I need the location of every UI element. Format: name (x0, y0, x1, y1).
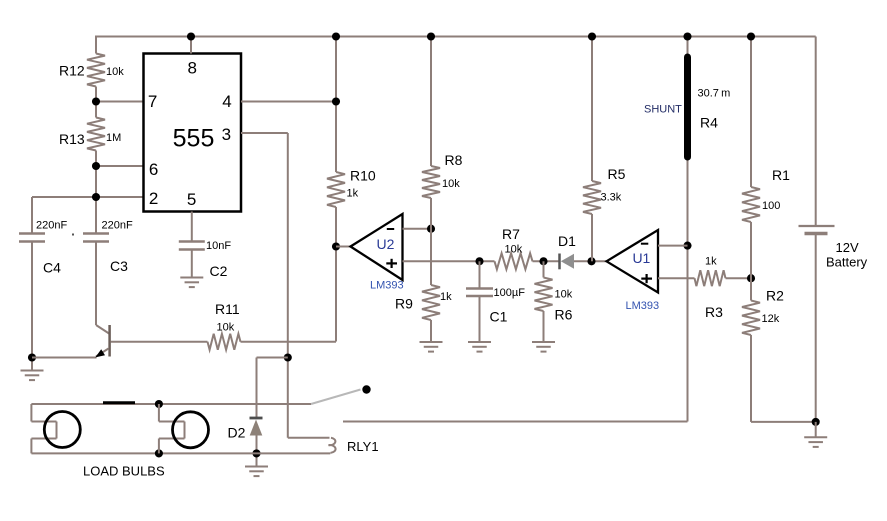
svg-text:C2: C2 (210, 263, 228, 279)
svg-text:C1: C1 (490, 309, 508, 325)
svg-text:5: 5 (187, 190, 196, 209)
svg-text:100: 100 (762, 200, 780, 212)
svg-text:R8: R8 (445, 152, 463, 168)
svg-text:4: 4 (222, 92, 231, 111)
svg-text:D2: D2 (228, 425, 246, 441)
svg-text:10nF: 10nF (206, 240, 231, 252)
svg-text:555: 555 (173, 125, 215, 153)
svg-text:U1: U1 (632, 250, 650, 266)
svg-text:R13: R13 (59, 131, 85, 147)
svg-text:220nF: 220nF (102, 220, 133, 232)
svg-text:8: 8 (187, 59, 196, 78)
svg-text:R10: R10 (350, 168, 376, 184)
svg-text:R6: R6 (555, 307, 573, 323)
svg-text:Battery: Battery (826, 255, 868, 270)
svg-text:R11: R11 (215, 301, 240, 317)
svg-text:10k: 10k (442, 178, 460, 190)
svg-text:LM393: LM393 (370, 280, 404, 292)
svg-text:R9: R9 (395, 296, 413, 312)
svg-text:6: 6 (149, 160, 158, 179)
svg-text:R12: R12 (59, 63, 85, 79)
svg-text:10k: 10k (217, 322, 235, 334)
svg-text:12k: 12k (762, 313, 780, 325)
svg-text:1k: 1k (705, 256, 717, 268)
svg-text:D1: D1 (558, 233, 576, 249)
svg-text:R4: R4 (700, 115, 718, 131)
svg-text:220nF: 220nF (36, 220, 67, 232)
svg-text:R1: R1 (772, 167, 790, 183)
svg-text:3: 3 (222, 125, 231, 144)
svg-text:12V: 12V (836, 240, 859, 255)
svg-text:C4: C4 (43, 260, 61, 276)
svg-text:R3: R3 (705, 304, 723, 320)
svg-text:1M: 1M (106, 132, 121, 144)
svg-text:7: 7 (148, 92, 157, 111)
svg-text:2: 2 (149, 189, 158, 208)
svg-text:3.3k: 3.3k (601, 192, 622, 204)
svg-text:C3: C3 (110, 258, 128, 274)
svg-text:U2: U2 (377, 236, 395, 252)
svg-text:10k: 10k (106, 66, 124, 78)
svg-text:10k: 10k (505, 244, 523, 256)
svg-text:1k: 1k (440, 291, 452, 303)
svg-text:SHUNT: SHUNT (644, 104, 682, 116)
svg-text:RLY1: RLY1 (347, 439, 379, 454)
svg-text:LOAD BULBS: LOAD BULBS (83, 464, 165, 479)
svg-text:R5: R5 (608, 166, 626, 182)
svg-text:1k: 1k (347, 188, 359, 200)
svg-text:10k: 10k (555, 289, 573, 301)
svg-text:LM393: LM393 (626, 300, 660, 312)
svg-text:R7: R7 (502, 226, 520, 242)
svg-text:R2: R2 (766, 288, 784, 304)
svg-text:30.7 m: 30.7 m (698, 88, 731, 100)
svg-text:100µF: 100µF (494, 287, 526, 299)
